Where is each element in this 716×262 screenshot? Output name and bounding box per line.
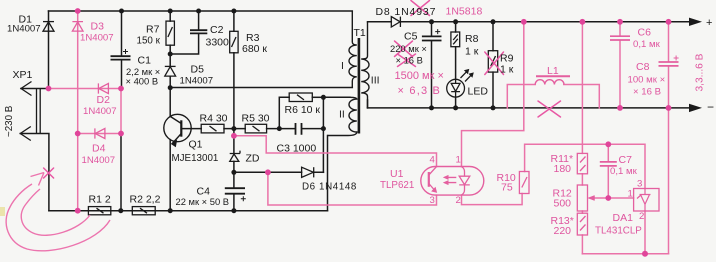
resistor R3 — [230, 31, 238, 53]
junction C7 top pink — [605, 141, 611, 147]
junction C6 bottom pink — [617, 105, 623, 111]
svg-text:1N5818: 1N5818 — [446, 6, 483, 18]
svg-text:C6: C6 — [638, 27, 652, 39]
svg-text:0,1 мк: 0,1 мк — [610, 166, 638, 177]
wire C1 column bottom lead — [121, 60, 123, 89]
wire C5 column — [431, 22, 433, 108]
diode D5 — [165, 66, 176, 76]
svg-text:R7: R7 — [146, 24, 160, 36]
wire bottom rail — [49, 210, 328, 212]
svg-text:1N4007: 1N4007 — [83, 106, 117, 117]
transformer T1 core — [358, 38, 361, 134]
plug XP1 pins — [37, 89, 41, 133]
wire winding III bottom lead — [367, 100, 369, 108]
junction C5 bottom — [429, 105, 434, 110]
svg-text:1N4007: 1N4007 — [180, 76, 214, 87]
wire C1 column black below AC2 row — [120, 134, 122, 211]
wire C2 top lead — [198, 11, 200, 30]
wire AC2 pink row — [78, 133, 121, 135]
junction bottom rail pink — [75, 208, 81, 214]
wire ZD tap to U1 pin 4 — [234, 136, 437, 167]
LED indicator — [447, 69, 474, 97]
svg-text:100 мк ×: 100 мк × — [628, 75, 666, 86]
svg-text:1N4007: 1N4007 — [7, 24, 41, 35]
junction winding II top — [321, 95, 326, 100]
svg-text:R2 2,2: R2 2,2 — [130, 194, 161, 206]
svg-text:0,1 мк: 0,1 мк — [633, 39, 661, 50]
svg-text:× 400 В: × 400 В — [126, 76, 159, 87]
wire AC1 pink row — [49, 88, 122, 90]
cross-out X on 220 mk — [395, 41, 413, 57]
optocoupler U1 phototransistor — [429, 167, 437, 193]
wire L1 bypass loop — [507, 85, 599, 108]
wire R4 to node A — [224, 128, 245, 130]
capacitor C8 plates — [659, 62, 679, 66]
wire R6 right lead — [312, 96, 323, 98]
wire bottom pink rail — [582, 253, 668, 255]
capacitor C4 polarity plus — [241, 196, 246, 201]
transformer T1 winding III — [361, 22, 369, 108]
inductor L1 core bar — [536, 75, 570, 77]
wire collector line to winding I bottom — [170, 87, 352, 89]
resistor R9 — [488, 51, 497, 72]
output minus arrow — [689, 104, 702, 112]
svg-text:220 мк ×: 220 мк × — [390, 43, 427, 54]
resistor R5 — [245, 124, 266, 133]
svg-text:3300: 3300 — [206, 37, 230, 49]
wire D1 column — [48, 11, 50, 89]
junction D6 anode — [231, 170, 236, 175]
svg-text:MJE13001: MJE13001 — [172, 153, 219, 164]
svg-text:1500 мк ×: 1500 мк × — [395, 70, 444, 82]
wire winding II bottom riser — [327, 136, 329, 211]
junction R9 bottom — [491, 105, 496, 110]
svg-text:2: 2 — [456, 195, 461, 206]
annotation arrow curved — [6, 173, 110, 251]
transformer T1 winding I — [349, 11, 357, 88]
svg-text:22 мк × 50 В: 22 мк × 50 В — [176, 196, 230, 207]
paper smudge — [0, 207, 5, 216]
IC DA1 TL431 box — [634, 189, 659, 212]
svg-text:U1: U1 — [390, 168, 404, 180]
svg-text:3: 3 — [430, 195, 435, 206]
wire C8 column — [668, 22, 670, 108]
junction C6 top pink — [617, 19, 623, 25]
svg-text:2: 2 — [639, 211, 644, 222]
svg-text:1 к: 1 к — [500, 64, 514, 76]
junction C3 right — [321, 126, 326, 131]
svg-text:Т1: Т1 — [354, 27, 366, 39]
wire pink rail riser to minus line — [668, 108, 670, 254]
svg-text:R5 30: R5 30 — [242, 113, 270, 125]
svg-text:~230 В: ~230 В — [4, 105, 15, 137]
junction node A base — [231, 126, 236, 131]
wire R6 left lead — [279, 97, 289, 128]
wire Q1 collector — [169, 88, 171, 117]
junction emitter bottom — [168, 208, 173, 213]
wire ZD column — [233, 129, 235, 188]
svg-text:180: 180 — [554, 163, 572, 175]
wire U1 pin 1 to plus output — [462, 22, 524, 167]
capacitor C7 plates — [600, 162, 617, 166]
wire R10 top to TL431 cathode — [525, 144, 645, 188]
svg-text:C8: C8 — [636, 61, 650, 73]
wire R12 wiper to TL431 ref — [591, 197, 634, 199]
transistor Q1 — [164, 114, 191, 147]
IC DA1 TL431 symbol — [637, 189, 651, 212]
svg-text:1N4007: 1N4007 — [82, 155, 116, 166]
svg-text:II: II — [339, 109, 345, 121]
svg-text:R6 10 к: R6 10 к — [285, 104, 321, 116]
capacitor C1 plates — [111, 56, 131, 59]
cross-out X on 16 V — [398, 54, 416, 67]
junction divider top pink — [580, 19, 586, 25]
resistor R6 — [289, 93, 312, 102]
svg-text:680 к: 680 к — [242, 43, 267, 55]
resistor R4 — [201, 124, 224, 133]
svg-text:D8 1N4937: D8 1N4937 — [376, 6, 437, 18]
wire D5 anode to collector node — [169, 76, 171, 87]
wire R13 to bottom pink rail — [581, 235, 583, 254]
capacitor C5 plates — [422, 36, 442, 40]
wire R9 column — [492, 22, 494, 108]
wire C3 to node B — [302, 128, 324, 130]
junction C2 top — [196, 9, 201, 14]
svg-text:× 16 В: × 16 В — [633, 87, 661, 98]
optocoupler U1 body — [421, 167, 484, 196]
capacitor C8 polarity plus — [674, 56, 679, 61]
svg-text:D6 1N4148: D6 1N4148 — [302, 182, 357, 193]
cut mark X on minus line — [538, 101, 561, 117]
svg-text:I: I — [341, 60, 344, 72]
output plus arrow — [689, 18, 702, 26]
junction C7 ref pink — [605, 195, 611, 201]
wire R11 divider column top — [581, 22, 583, 154]
junction R8 top — [453, 19, 458, 24]
wire Q1 base to R4 — [181, 128, 201, 130]
junction LED bottom — [453, 105, 458, 110]
svg-text:1: 1 — [628, 189, 633, 200]
optocoupler U1 LED — [459, 167, 470, 196]
capacitor C5 polarity plus — [435, 29, 440, 34]
wire C7 bottom lead — [607, 166, 609, 198]
wire TL431 anode to pink rail — [644, 211, 646, 254]
svg-text:3: 3 — [637, 179, 642, 190]
wire C4 bottom lead — [233, 194, 235, 211]
diode D3 — [72, 22, 83, 32]
wire D6 line — [234, 171, 324, 173]
wire winding III top lead to D8 — [368, 21, 392, 23]
svg-text:C3 1000: C3 1000 — [277, 143, 317, 155]
junction R1 right — [118, 208, 123, 213]
diode D6 — [302, 167, 314, 177]
junction D3 bottom pink — [75, 131, 81, 137]
svg-text:TLP621: TLP621 — [380, 180, 414, 191]
svg-text:DA1: DA1 — [613, 212, 634, 224]
resistor R2 — [132, 207, 155, 215]
svg-text:500: 500 — [554, 198, 572, 210]
junction D6 tap pink — [265, 169, 271, 175]
diode D4 — [95, 128, 105, 138]
svg-text:C2: C2 — [210, 24, 224, 36]
svg-text:C5: C5 — [404, 31, 418, 43]
junction R6 left — [277, 126, 282, 131]
junction C1 top — [119, 9, 124, 14]
wire XP1 upper pin to node — [21, 88, 49, 90]
svg-text:C1: C1 — [138, 55, 152, 67]
capacitor C6 plates — [610, 36, 630, 40]
junction C4 bottom — [231, 208, 236, 213]
resistor R7 — [166, 21, 174, 45]
junction C8 bottom pink — [666, 105, 672, 111]
junction C5 top — [429, 19, 434, 24]
wire R8 column — [455, 22, 457, 108]
cross-out X on 1N4937 — [411, 1, 430, 16]
svg-text:× 6,3 В: × 6,3 В — [398, 85, 442, 97]
junction ZD tap pink — [231, 133, 237, 139]
junction R7 top — [168, 9, 173, 14]
junction D4 anode pink — [118, 131, 124, 137]
wire C2 bottom lead to snubber node — [170, 34, 198, 54]
svg-text:1 к: 1 к — [465, 46, 479, 58]
wire Q1 emitter to bottom rail — [169, 140, 171, 211]
cross-out X on R9 — [485, 52, 504, 75]
svg-text:R1 2: R1 2 — [89, 194, 111, 206]
svg-text:R8: R8 — [465, 33, 479, 45]
svg-text:ZD: ZD — [246, 153, 260, 165]
junction TL431 anode pink — [642, 251, 648, 257]
svg-text:C7: C7 — [619, 154, 633, 166]
resistor R11 — [577, 153, 587, 173]
junction AC1 node pink — [46, 86, 52, 92]
wire C6 column — [619, 22, 621, 108]
svg-text:−: − — [707, 100, 714, 114]
junction pin1 feed pink — [521, 19, 527, 25]
wire C1 column top lead — [121, 11, 123, 56]
wire R12 to R13 — [581, 211, 583, 213]
svg-text:XP1: XP1 — [13, 69, 33, 81]
wire XP1 lower pin down to bottom rail — [20, 134, 49, 211]
inductor L1 coil — [535, 80, 564, 85]
diode D2 — [98, 83, 108, 93]
wire winding II top lead — [323, 96, 350, 98]
svg-text:L1: L1 — [547, 65, 559, 77]
svg-text:D4: D4 — [92, 143, 106, 155]
wire U1 pin 2 to R10 — [462, 194, 523, 205]
svg-text:75: 75 — [501, 182, 513, 194]
junction collector node — [168, 85, 173, 90]
svg-text:3,3...6 В: 3,3...6 В — [695, 53, 706, 91]
wire D8 cathode to + output — [401, 21, 689, 23]
cut mark X on AC2 wire — [44, 168, 54, 178]
svg-text:D2: D2 — [97, 94, 111, 106]
resistor R10 — [519, 172, 529, 194]
junction D3 top pink — [75, 8, 81, 14]
svg-text:150 к: 150 к — [137, 36, 161, 47]
svg-text:220: 220 — [554, 225, 572, 237]
wire D3 column — [77, 11, 79, 211]
svg-text:R4 30: R4 30 — [200, 113, 228, 125]
svg-text:4: 4 — [430, 155, 436, 166]
wire top +DC rail — [49, 10, 353, 12]
wire node B column — [322, 97, 324, 172]
resistor R12 potentiometer — [577, 185, 594, 211]
zener ZD — [230, 151, 240, 162]
svg-text:D3: D3 — [91, 21, 105, 33]
wire R11 to R12 — [581, 174, 583, 185]
wire R3 column — [233, 11, 235, 129]
svg-text:TL431CLP: TL431CLP — [595, 226, 642, 237]
resistor R13 — [577, 213, 587, 235]
junction R9 top — [491, 19, 496, 24]
resistor R8 — [451, 32, 460, 47]
junction C1 bottom pink — [118, 86, 124, 92]
wire R7 bottom lead to snubber node — [169, 45, 171, 66]
wire C7 top lead — [607, 144, 609, 161]
capacitor C2 plates — [190, 30, 207, 33]
svg-text:Q1: Q1 — [189, 139, 203, 151]
optocoupler U1 light arrows — [443, 175, 457, 185]
diode D8 — [391, 17, 400, 27]
svg-text:1N4007: 1N4007 — [80, 33, 114, 44]
plug XP1 upper prong arrow — [21, 82, 32, 96]
svg-text:× 16 В: × 16 В — [396, 55, 423, 66]
svg-text:LED: LED — [468, 86, 489, 98]
wire R5 to C3 — [267, 128, 295, 130]
svg-text:D5: D5 — [191, 64, 205, 76]
svg-text:+: + — [706, 17, 712, 29]
junction C8 top pink — [666, 19, 672, 25]
wire secondary minus line — [368, 107, 690, 109]
capacitor C4 plates — [225, 188, 245, 194]
svg-text:III: III — [371, 75, 380, 87]
resistor R1 — [88, 207, 110, 215]
junction R3 top — [231, 9, 236, 14]
wire minus bus link pink — [120, 89, 122, 134]
diode D1 — [43, 22, 54, 32]
junction snubber node — [168, 52, 173, 57]
wire D6 tap to U1 pin 3 — [268, 172, 437, 205]
transformer T1 winding II — [328, 97, 357, 135]
svg-text:1: 1 — [456, 155, 461, 166]
plug XP1 lower prong arrow — [20, 127, 31, 141]
capacitor C1 polarity plus — [123, 49, 128, 54]
capacitor C3 plates — [296, 123, 302, 135]
wire R7 top lead — [169, 11, 171, 21]
